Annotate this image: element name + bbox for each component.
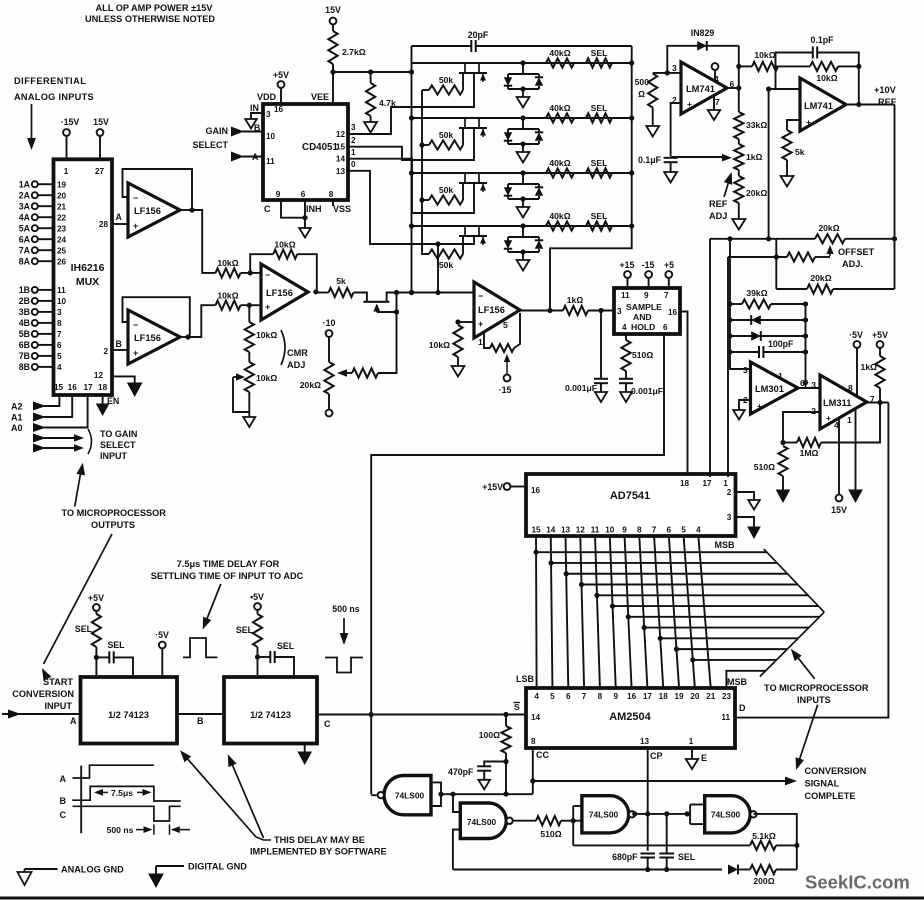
svg-text:+15: +15 (620, 260, 635, 270)
resistor 10k into U3 inverting input (216, 268, 241, 277)
data line bit 3 (580, 536, 584, 688)
svg-text:+5V: +5V (88, 593, 104, 603)
svg-text:OFFSET: OFFSET (838, 247, 875, 257)
svg-text:-15: -15 (642, 260, 655, 270)
bus tap dot bit 9 (674, 647, 679, 652)
svg-text:10kΩ: 10kΩ (217, 258, 238, 268)
U4 output wire (520, 310, 563, 312)
svg-text:3: 3 (57, 308, 62, 317)
svg-text:7A: 7A (19, 245, 31, 255)
svg-text:8: 8 (57, 319, 62, 328)
bus tap dot bit 8 (658, 636, 663, 641)
pin 9 / INH ground wire (281, 200, 305, 218)
svg-text:470pF: 470pF (448, 767, 474, 777)
svg-text:2: 2 (351, 136, 356, 145)
svg-text:S: S (514, 702, 520, 712)
svg-text:SEL: SEL (236, 625, 254, 635)
svg-text:9: 9 (276, 190, 281, 199)
svg-text:100pF: 100pF (768, 339, 794, 349)
svg-text:SEL: SEL (107, 640, 125, 650)
svg-text:5: 5 (550, 692, 555, 701)
svg-text:ADJ.: ADJ. (842, 259, 863, 269)
annotation arrow to inputs (31, 104, 33, 142)
svg-text:19: 19 (675, 692, 685, 701)
svg-text:12: 12 (94, 371, 104, 380)
svg-text:UNLESS OTHERWISE NOTED: UNLESS OTHERWISE NOTED (85, 14, 215, 24)
bus horizontal bit 3 (581, 584, 797, 586)
svg-text:+5: +5 (664, 260, 674, 270)
svg-text:4: 4 (534, 692, 539, 701)
pot wiper resistor to output node (352, 368, 378, 377)
svg-text:SeekIC.com: SeekIC.com (805, 872, 910, 893)
svg-text:AD7541: AD7541 (610, 490, 650, 502)
svg-text:·5V: ·5V (849, 330, 863, 340)
svg-text:5B: 5B (19, 329, 30, 339)
svg-text:CONVERSION: CONVERSION (805, 766, 867, 776)
CMR ADJ brace and label (281, 330, 285, 365)
one-shot 1 SEL capacitor (96, 656, 109, 658)
svg-text:+15V: +15V (482, 482, 503, 492)
svg-text:·15V: ·15V (61, 117, 80, 127)
IC IH6216 MUX (54, 159, 113, 395)
gain row 2 wire (412, 117, 632, 119)
bus tap dot bit 1 (548, 560, 553, 565)
svg-text:+: + (687, 99, 692, 109)
svg-text:SELECT: SELECT (192, 140, 228, 150)
row 4 resistor 40k (546, 221, 574, 230)
svg-text:1: 1 (64, 167, 69, 176)
svg-text:3: 3 (743, 365, 748, 375)
svg-text:A1: A1 (11, 413, 23, 423)
clamp diode right (730, 335, 806, 337)
svg-text:40kΩ: 40kΩ (549, 103, 570, 113)
svg-text:8: 8 (637, 526, 642, 535)
resistor 4.7k to ground (370, 72, 372, 83)
svg-text:7.5μs TIME DELAY FOR: 7.5μs TIME DELAY FOR (177, 559, 280, 569)
svg-text:1: 1 (351, 148, 356, 157)
svg-text:500: 500 (635, 77, 650, 87)
IC AD7541 (526, 474, 736, 536)
diode IN829 feedback (667, 46, 739, 73)
row 1 clamp diode pair (520, 60, 525, 65)
op-amp U6 LM741 (800, 78, 846, 131)
svg-text:2A: 2A (19, 190, 31, 200)
svg-text:+: + (265, 302, 270, 312)
svg-text:11: 11 (721, 713, 730, 722)
Q1 gate wire to wiper node (377, 311, 397, 313)
svg-text:3B: 3B (19, 307, 30, 317)
resistor 10k to ground at + input (455, 319, 460, 324)
svg-text:16: 16 (627, 692, 637, 701)
svg-text:0.001μF: 0.001μF (631, 386, 663, 396)
svg-text:3: 3 (811, 380, 816, 390)
CMR pot wiper (233, 377, 249, 412)
feedback bus right (805, 304, 807, 383)
arrow to gain select (75, 467, 82, 507)
row 1 resistor 40k (546, 58, 574, 67)
svg-text:16: 16 (274, 105, 284, 114)
svg-text:74LS00: 74LS00 (589, 810, 619, 820)
bus horizontal bit 9 (676, 648, 787, 650)
U7 pin 2 ground (739, 400, 751, 410)
bus horizontal bit 5 (613, 605, 819, 607)
svg-text:20: 20 (690, 692, 700, 701)
svg-text:5k: 5k (336, 276, 346, 286)
svg-text:·5V: ·5V (155, 630, 169, 640)
svg-text:8: 8 (531, 737, 536, 746)
svg-text:20kΩ: 20kΩ (746, 188, 767, 198)
S&H output pin 16 wire to DAC pin 18 (680, 312, 688, 478)
svg-text:7.5μs: 7.5μs (111, 788, 133, 798)
resistor 510 below S&H (625, 334, 627, 340)
svg-text:SIGNAL: SIGNAL (805, 779, 840, 789)
digital gnd symbol (156, 865, 184, 867)
svg-text:·10: ·10 (323, 318, 336, 328)
data line bit 2 (566, 536, 569, 688)
U7 output wire (798, 387, 820, 389)
data line bit 9 (669, 536, 679, 688)
svg-text:VSS: VSS (333, 204, 351, 214)
svg-text:28: 28 (99, 220, 109, 229)
svg-text:500 ns: 500 ns (332, 604, 359, 614)
bus tap dot bit 10 (690, 657, 695, 662)
CD4051 pin 13 wire to row 4 gate and U4 node (348, 171, 474, 244)
U6 non-inverting input with 5k (787, 120, 800, 130)
svg-text:IN829: IN829 (691, 28, 715, 38)
svg-text:680pF: 680pF (612, 852, 638, 862)
svg-text:4A: 4A (19, 212, 31, 222)
svg-text:14: 14 (546, 526, 556, 535)
data line bit 7 (639, 536, 647, 688)
svg-text:74LS00: 74LS00 (467, 817, 497, 827)
U5 pin 7 ground (713, 96, 715, 110)
bus arrow lower edge (760, 612, 824, 676)
svg-text:3: 3 (351, 123, 356, 132)
capacitor 0.001uF left (600, 311, 602, 379)
U5 output node (727, 87, 739, 89)
pot 1k ref adjust (738, 139, 740, 144)
svg-text:9: 9 (613, 692, 618, 701)
svg-text:18: 18 (659, 692, 669, 701)
svg-text:ANALOG INPUTS: ANALOG INPUTS (14, 92, 94, 102)
svg-text:0.001μF: 0.001μF (565, 383, 597, 393)
resistor 500 ohm to ground (648, 74, 657, 108)
svg-text:D: D (739, 703, 746, 713)
svg-text:LF156: LF156 (134, 206, 161, 216)
row 2 clamp diode pair (520, 115, 525, 120)
IC 74123 first half (81, 677, 178, 744)
svg-text:2: 2 (727, 488, 732, 497)
capacitor 0.1uF to ground (664, 157, 678, 159)
svg-text:13: 13 (640, 737, 650, 746)
bus B vertical (50k commons) (421, 90, 423, 253)
U5 pin 4 terminal (712, 63, 719, 70)
svg-text:15V: 15V (831, 505, 847, 515)
svg-text:IH6216: IH6216 (71, 262, 105, 274)
svg-text:SELECT: SELECT (100, 440, 136, 450)
svg-text:+10V: +10V (874, 85, 897, 95)
row 4 clamp ground (522, 252, 524, 260)
bus tap dot bit 5 (610, 603, 615, 608)
svg-text:B: B (197, 716, 204, 726)
svg-text:13: 13 (336, 167, 346, 176)
svg-text:6B: 6B (19, 340, 30, 350)
svg-text:10kΩ: 10kΩ (256, 373, 277, 383)
data line bit 6 (625, 536, 632, 688)
svg-text:MUX: MUX (76, 276, 99, 288)
resistor 10k feedback (776, 65, 811, 67)
row 3 clamp ground (522, 199, 524, 207)
svg-text:8: 8 (598, 692, 603, 701)
svg-text:39kΩ: 39kΩ (746, 288, 767, 298)
svg-text:INPUTS: INPUTS (797, 695, 831, 705)
svg-text:2: 2 (103, 347, 108, 356)
arrow to start conversion (44, 534, 113, 664)
svg-text:0.1μF: 0.1μF (638, 155, 662, 165)
arrow to negative pulse (343, 618, 345, 640)
svg-text:7B: 7B (19, 351, 30, 361)
svg-text:7: 7 (715, 97, 720, 107)
svg-text:A2: A2 (11, 402, 23, 412)
row 2 resistor 50k (422, 144, 429, 146)
svg-text:74LS00: 74LS00 (395, 791, 425, 801)
annotation arrow to bus (793, 652, 815, 679)
capacitor 0.001uF right (619, 378, 633, 380)
row 2 clamp ground (522, 144, 524, 152)
svg-text:+5V: +5V (872, 330, 888, 340)
svg-text:TO GAIN: TO GAIN (100, 429, 137, 439)
note: to gain select input (88, 429, 92, 454)
capacitor 0.1pF (776, 53, 813, 67)
svg-text:6: 6 (301, 190, 306, 199)
data line bit 1 (551, 536, 553, 688)
bus arrow upper edge (764, 549, 825, 612)
svg-text:0: 0 (351, 160, 356, 169)
svg-text:16: 16 (531, 486, 541, 495)
G2 output wire (513, 820, 536, 822)
svg-text:IMPLEMENTED BY SOFTWARE: IMPLEMENTED BY SOFTWARE (250, 847, 387, 857)
bus horizontal bit 1 (551, 562, 777, 564)
op-amp U1 LF156 top buffer (128, 183, 180, 237)
svg-text:16: 16 (668, 308, 678, 317)
IC sample and hold (614, 288, 680, 334)
resistor 2.7k (332, 24, 334, 31)
capacitor SEL (666, 814, 668, 854)
svg-text:C: C (264, 204, 271, 214)
U1 feedback loop wire (180, 209, 192, 211)
svg-text:23: 23 (722, 692, 732, 701)
svg-text:9: 9 (644, 291, 649, 300)
conversion signal complete wire (533, 780, 786, 782)
svg-text:40kΩ: 40kΩ (549, 48, 570, 58)
bus tap dot bit 6 (626, 614, 631, 619)
svg-text:CP: CP (650, 751, 663, 761)
svg-text:LF156: LF156 (478, 305, 505, 315)
svg-text:THIS DELAY MAY BE: THIS DELAY MAY BE (274, 835, 365, 845)
svg-text:8: 8 (848, 383, 853, 393)
data line bit 5 (610, 536, 616, 688)
pot 20k vertical (324, 362, 333, 394)
offset vertical from U6 input (768, 89, 770, 239)
svg-text:ANALOG GND: ANALOG GND (61, 865, 124, 875)
svg-text:10kΩ: 10kΩ (429, 340, 450, 350)
svg-text:LM311: LM311 (823, 398, 851, 408)
svg-text:C: C (324, 719, 331, 729)
resistor 510 between G2 G3 (536, 816, 561, 825)
svg-text:1: 1 (847, 415, 852, 425)
svg-text:Ω: Ω (638, 89, 645, 99)
svg-text:IN: IN (250, 103, 259, 113)
LM301 inverting bus (730, 239, 751, 369)
CMR pot ground (248, 392, 250, 417)
svg-text:6: 6 (667, 526, 672, 535)
svg-text:ALL OP AMP POWER ±15V: ALL OP AMP POWER ±15V (95, 3, 213, 13)
svg-text:1/2 74123: 1/2 74123 (250, 710, 291, 720)
svg-text:510Ω: 510Ω (540, 829, 561, 839)
bus tap dot bit 2 (564, 571, 569, 576)
svg-text:16: 16 (68, 383, 78, 392)
U2 output wire to 10k (188, 305, 216, 337)
comparator output line D (736, 403, 889, 718)
svg-text:TO MICROPROCESSOR: TO MICROPROCESSOR (61, 508, 166, 518)
svg-text:40kΩ: 40kΩ (549, 158, 570, 168)
note this delay may be implemented by software (182, 752, 257, 837)
resistor 39k (730, 303, 742, 305)
resistor 200 ohm (738, 869, 750, 871)
G1 input wires (431, 782, 441, 806)
svg-text:25: 25 (57, 246, 67, 255)
bus tap dot bit 0 (533, 550, 538, 555)
resistor 33k (734, 112, 743, 139)
svg-text:17: 17 (702, 479, 712, 488)
svg-text:1: 1 (778, 371, 783, 381)
timing diagram axis (80, 766, 82, 834)
row 4 JFET switch (464, 226, 466, 236)
svg-text:510Ω: 510Ω (632, 350, 653, 360)
svg-text:CONVERSION: CONVERSION (12, 689, 74, 699)
op-amp U4 LF156 (474, 282, 520, 338)
svg-text:+: + (826, 413, 831, 423)
svg-text:50k: 50k (439, 130, 454, 140)
svg-text:3: 3 (727, 513, 732, 522)
vertical to 20k lower (775, 239, 777, 289)
bus horizontal bit 2 (566, 573, 787, 575)
annotation arrow to conversion line (798, 705, 817, 763)
svg-text:VDD: VDD (257, 92, 277, 102)
op-amp U8 LM311 (820, 375, 867, 429)
svg-text:A: A (70, 716, 77, 726)
resistor 1k (875, 356, 884, 388)
resistor 10k to U6 (739, 65, 752, 67)
svg-text:11: 11 (266, 157, 275, 166)
VSS stub (332, 200, 334, 206)
data line bit 4 (595, 536, 600, 688)
balance pot below U4 (484, 333, 490, 348)
bus tap dot bit 4 (594, 593, 599, 598)
pin E ground (691, 748, 693, 759)
svg-text:10: 10 (57, 297, 67, 306)
svg-text:1/2 74123: 1/2 74123 (108, 710, 149, 720)
svg-text:17: 17 (643, 692, 653, 701)
svg-text:LM741: LM741 (686, 84, 715, 94)
svg-text:17: 17 (83, 383, 93, 392)
resistor 20k (738, 170, 740, 176)
+10V REF right vertical (894, 105, 896, 290)
svg-text:5.1kΩ: 5.1kΩ (752, 831, 776, 841)
U1 output wire to 10k (192, 210, 216, 273)
U8 pin 4 15V terminal (838, 418, 840, 495)
svg-text:5: 5 (57, 352, 62, 361)
svg-text:11: 11 (591, 526, 600, 535)
svg-text:AM2504: AM2504 (609, 711, 651, 723)
svg-text:−: − (478, 291, 483, 301)
svg-text:10: 10 (605, 526, 615, 535)
wiper wire to 1k pot (671, 156, 726, 158)
svg-text:3: 3 (266, 110, 271, 119)
IC AM2504 (526, 688, 735, 748)
wire 15V rail to network (333, 71, 412, 73)
op-amp U7 LM301 (751, 362, 799, 414)
svg-text:510Ω: 510Ω (754, 462, 775, 472)
svg-text:1: 1 (478, 337, 483, 347)
svg-text:SEL: SEL (591, 103, 608, 113)
svg-text:7: 7 (664, 291, 669, 300)
svg-text:B: B (60, 796, 67, 806)
svg-text:DIFFERENTIAL: DIFFERENTIAL (14, 76, 86, 86)
svg-text:20kΩ: 20kΩ (300, 380, 321, 390)
U8 output node (867, 402, 889, 404)
svg-text:1MΩ: 1MΩ (800, 448, 819, 458)
gain select line 2 (33, 444, 46, 453)
svg-text:1: 1 (723, 479, 728, 488)
row 3 resistor 50k (422, 199, 429, 201)
data line bit 11 (698, 536, 710, 688)
svg-text:•5V: •5V (250, 592, 264, 602)
wiper resistor from pin1 riser (728, 256, 787, 258)
row 4 clamp diode pair (520, 223, 525, 228)
svg-text:11: 11 (621, 291, 630, 300)
svg-text:10kΩ: 10kΩ (274, 240, 295, 250)
bus horizontal bit 6 (628, 616, 819, 618)
svg-text:MSB: MSB (715, 540, 736, 550)
positive pulse symbol (183, 638, 218, 657)
svg-text:INPUT: INPUT (100, 451, 128, 461)
svg-text:C: C (60, 810, 67, 820)
svg-text:8A: 8A (19, 256, 31, 266)
svg-text:1kΩ: 1kΩ (861, 362, 878, 372)
svg-text:0.1pF: 0.1pF (811, 35, 835, 45)
capacitor 100pF (730, 351, 759, 353)
G3 output wire (636, 813, 688, 815)
U8 feedback 1M (783, 412, 820, 443)
svg-text:LF156: LF156 (266, 288, 293, 298)
negative pulse symbol (325, 658, 363, 673)
svg-text:50k: 50k (439, 185, 454, 195)
svg-text:SAMPLE: SAMPLE (626, 302, 662, 312)
svg-text:REF: REF (709, 199, 728, 209)
VEE supply wire (332, 72, 334, 104)
svg-text:3A: 3A (19, 201, 31, 211)
bus tap dot bit 7 (642, 625, 647, 630)
svg-text:19: 19 (57, 180, 67, 189)
row 2 JFET switch (464, 118, 466, 128)
svg-text:CMR: CMR (287, 348, 308, 358)
capacitor 680pF (640, 853, 655, 855)
svg-text:13: 13 (561, 526, 571, 535)
svg-text:TO MICROPROCESSOR: TO MICROPROCESSOR (764, 683, 869, 693)
bus tap dot bit 3 (579, 582, 584, 587)
svg-text:10kΩ: 10kΩ (217, 291, 238, 301)
